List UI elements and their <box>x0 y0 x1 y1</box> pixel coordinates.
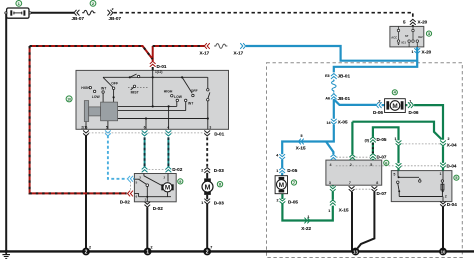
svg-text:1: 1 <box>440 172 442 176</box>
svg-text:1: 1 <box>276 169 278 173</box>
svg-text:5: 5 <box>301 134 303 138</box>
svg-text:E3: E3 <box>325 74 329 78</box>
svg-text:JB-01: JB-01 <box>338 74 351 79</box>
svg-text:JB-01: JB-01 <box>338 96 351 101</box>
svg-text:MIST: MIST <box>131 90 140 94</box>
svg-text:7: 7 <box>210 245 212 249</box>
svg-text:2: 2 <box>85 249 88 255</box>
svg-text:5: 5 <box>403 19 406 24</box>
svg-text:3: 3 <box>209 125 211 129</box>
svg-text:1: 1 <box>409 99 411 103</box>
svg-text:8: 8 <box>376 181 378 185</box>
svg-text:2: 2 <box>163 176 165 180</box>
svg-text:2: 2 <box>112 7 114 11</box>
svg-text:D-07: D-07 <box>377 155 387 160</box>
svg-text:1: 1 <box>201 201 203 205</box>
svg-text:10: 10 <box>67 97 71 101</box>
svg-text:M: M <box>279 182 285 189</box>
svg-text:A6: A6 <box>325 97 330 101</box>
svg-text:M: M <box>392 103 397 110</box>
svg-text:1: 1 <box>146 249 149 255</box>
svg-text:OFF: OFF <box>111 82 118 86</box>
svg-text:X-17: X-17 <box>200 50 210 55</box>
svg-text:1: 1 <box>395 137 397 141</box>
svg-text:3: 3 <box>329 181 331 185</box>
svg-text:ACC: ACC <box>391 35 397 39</box>
svg-text:HIGH: HIGH <box>164 89 173 93</box>
svg-text:1: 1 <box>308 215 310 219</box>
svg-text:D-05: D-05 <box>288 199 298 204</box>
svg-text:14: 14 <box>327 121 331 125</box>
svg-text:D-02: D-02 <box>120 199 130 204</box>
svg-text:D-04: D-04 <box>447 202 457 207</box>
svg-text:1: 1 <box>412 50 414 54</box>
svg-text:2: 2 <box>277 199 279 203</box>
svg-text:X-05: X-05 <box>338 120 348 125</box>
svg-text:2(1): 2(1) <box>81 125 87 129</box>
svg-text:INT: INT <box>188 101 194 105</box>
svg-text:D-02: D-02 <box>172 167 182 172</box>
svg-text:OFF: OFF <box>191 89 198 93</box>
svg-text:4: 4 <box>276 154 278 158</box>
svg-text:2: 2 <box>379 99 381 103</box>
svg-text:D-03: D-03 <box>214 168 224 173</box>
svg-text:D-06: D-06 <box>373 110 383 115</box>
svg-text:X-15: X-15 <box>296 145 306 150</box>
svg-text:LOW: LOW <box>174 95 183 99</box>
svg-text:JB-07: JB-07 <box>109 16 122 21</box>
svg-text:X-20: X-20 <box>418 19 428 24</box>
svg-text:IG1: IG1 <box>402 41 407 45</box>
svg-text:HIGH: HIGH <box>81 86 90 90</box>
svg-text:2: 2 <box>201 168 203 172</box>
svg-text:JB-07: JB-07 <box>72 16 85 21</box>
svg-text:ST: ST <box>405 34 409 38</box>
svg-text:M: M <box>165 185 170 192</box>
svg-text:2: 2 <box>448 137 450 141</box>
svg-text:X-15: X-15 <box>339 208 349 213</box>
svg-text:13: 13 <box>353 249 358 254</box>
svg-text:X-17: X-17 <box>234 50 244 55</box>
svg-text:D-04: D-04 <box>447 163 457 168</box>
svg-text:2: 2 <box>206 249 209 255</box>
svg-text:D-05: D-05 <box>377 137 387 142</box>
svg-text:D-01: D-01 <box>157 64 167 69</box>
svg-text:3: 3 <box>139 176 141 180</box>
svg-text:X-22: X-22 <box>301 226 311 231</box>
svg-text:X-04: X-04 <box>447 142 457 147</box>
svg-text:1(12): 1(12) <box>155 70 162 74</box>
svg-text:D-05: D-05 <box>287 168 297 173</box>
svg-text:5: 5 <box>135 180 137 184</box>
svg-text:2: 2 <box>350 163 352 167</box>
svg-text:5: 5 <box>393 172 395 176</box>
svg-text:D-07: D-07 <box>377 191 387 196</box>
svg-text:D-02: D-02 <box>153 206 163 211</box>
svg-text:2: 2 <box>445 194 447 198</box>
svg-text:10: 10 <box>441 249 446 254</box>
svg-text:2: 2 <box>151 245 153 249</box>
svg-text:1: 1 <box>328 209 330 213</box>
svg-text:5: 5 <box>106 125 108 129</box>
svg-text:D-06: D-06 <box>409 110 419 115</box>
svg-text:4: 4 <box>330 163 332 167</box>
svg-text:1: 1 <box>144 198 146 202</box>
svg-text:M: M <box>205 182 211 191</box>
svg-text:4: 4 <box>167 125 169 129</box>
svg-text:2: 2 <box>89 245 91 249</box>
svg-text:6: 6 <box>144 125 146 129</box>
svg-text:X-20: X-20 <box>422 50 432 55</box>
svg-text:INT: INT <box>101 86 107 90</box>
svg-text:7: 7 <box>349 181 351 185</box>
svg-text:5: 5 <box>370 163 372 167</box>
svg-text:6: 6 <box>135 194 137 198</box>
svg-text:IG2: IG2 <box>418 35 423 39</box>
svg-text:D-01: D-01 <box>214 132 224 137</box>
svg-text:D-03: D-03 <box>214 200 224 205</box>
svg-text:LOW: LOW <box>92 95 101 99</box>
